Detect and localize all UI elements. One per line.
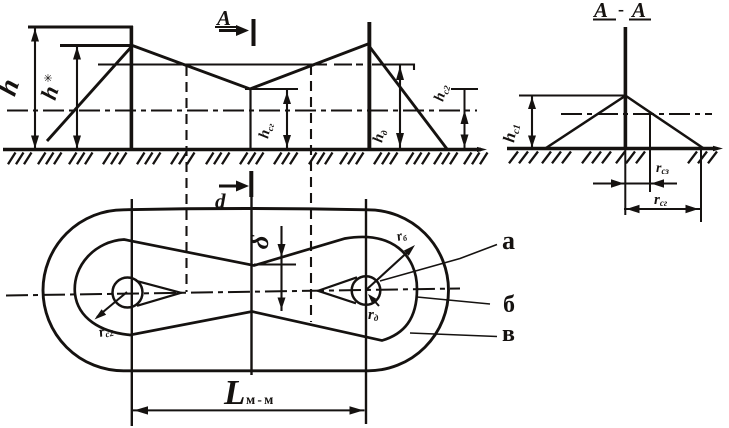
tent ridge sag line: [131, 44, 368, 89]
guy wire right: [369, 46, 447, 149]
centerline (section): [561, 113, 712, 115]
top reference line h: [28, 26, 133, 29]
svg-text:✳: ✳: [43, 73, 52, 85]
dimension h_d: [399, 65, 401, 148]
right teardrop: [318, 277, 357, 303]
radius arrow r_d (mast circle): [370, 296, 379, 306]
svg-text:в: в: [502, 321, 515, 347]
extension line right anchor: [700, 149, 702, 222]
section cut marker A (bottom): [219, 185, 239, 188]
inner contour (plan): [75, 237, 417, 341]
svg-text:а: а: [502, 226, 515, 255]
mast 1: [130, 26, 134, 151]
projection dashed line right: [310, 65, 312, 322]
eave reference line (section): [519, 94, 625, 96]
low point tick: [245, 88, 298, 90]
mast 2: [367, 22, 371, 150]
ground line (section): [507, 147, 716, 151]
dimension h_c2: [451, 89, 478, 148]
projection dashed line left: [185, 66, 187, 292]
svg-text:м-м: м-м: [246, 392, 276, 407]
left mast axis line (plan): [131, 199, 133, 426]
ground hatching (section): [509, 152, 538, 164]
guy wire left: [47, 45, 133, 141]
left mast circle: [113, 278, 143, 308]
dimension h: [34, 28, 36, 149]
right mast axis line (plan): [365, 199, 367, 424]
centerline (elevation): [7, 109, 477, 111]
leader v: [410, 333, 497, 337]
leader a: [380, 245, 497, 282]
radius arrow r_b (right lobe): [366, 248, 412, 290]
plan centerline: [6, 289, 460, 296]
tent side left (section): [546, 96, 625, 148]
right mast circle: [352, 276, 381, 305]
dimension h_cg: [286, 90, 288, 148]
leader b: [417, 297, 490, 304]
low point drop line: [249, 89, 251, 150]
reference line hd level: [98, 65, 414, 71]
mast centerline extension below ground: [624, 149, 626, 215]
mast (section): [624, 27, 628, 149]
dimension L_m-m: [133, 409, 365, 411]
outer contour (plan): [43, 209, 449, 371]
ground line (elevation): [3, 148, 481, 152]
delta dimension line: [280, 226, 282, 311]
dimension r_cg: [624, 208, 701, 210]
svg-text:б: б: [503, 292, 515, 318]
dimension h_c1: [531, 96, 533, 148]
reference line h*: [60, 44, 133, 47]
svg-text:L: L: [223, 373, 245, 412]
radius arrow r_c2: [97, 292, 127, 317]
section cut line through plan: [250, 195, 252, 375]
svg-text:-: -: [618, 0, 624, 19]
tent side right (section): [626, 96, 703, 148]
delta dimension tick: [254, 263, 296, 265]
dimension r_c3: [593, 183, 677, 185]
left teardrop: [136, 281, 181, 306]
ground hatching (elevation): [8, 153, 32, 165]
extension line r_c3: [649, 115, 651, 192]
dimension h*: [76, 46, 78, 149]
